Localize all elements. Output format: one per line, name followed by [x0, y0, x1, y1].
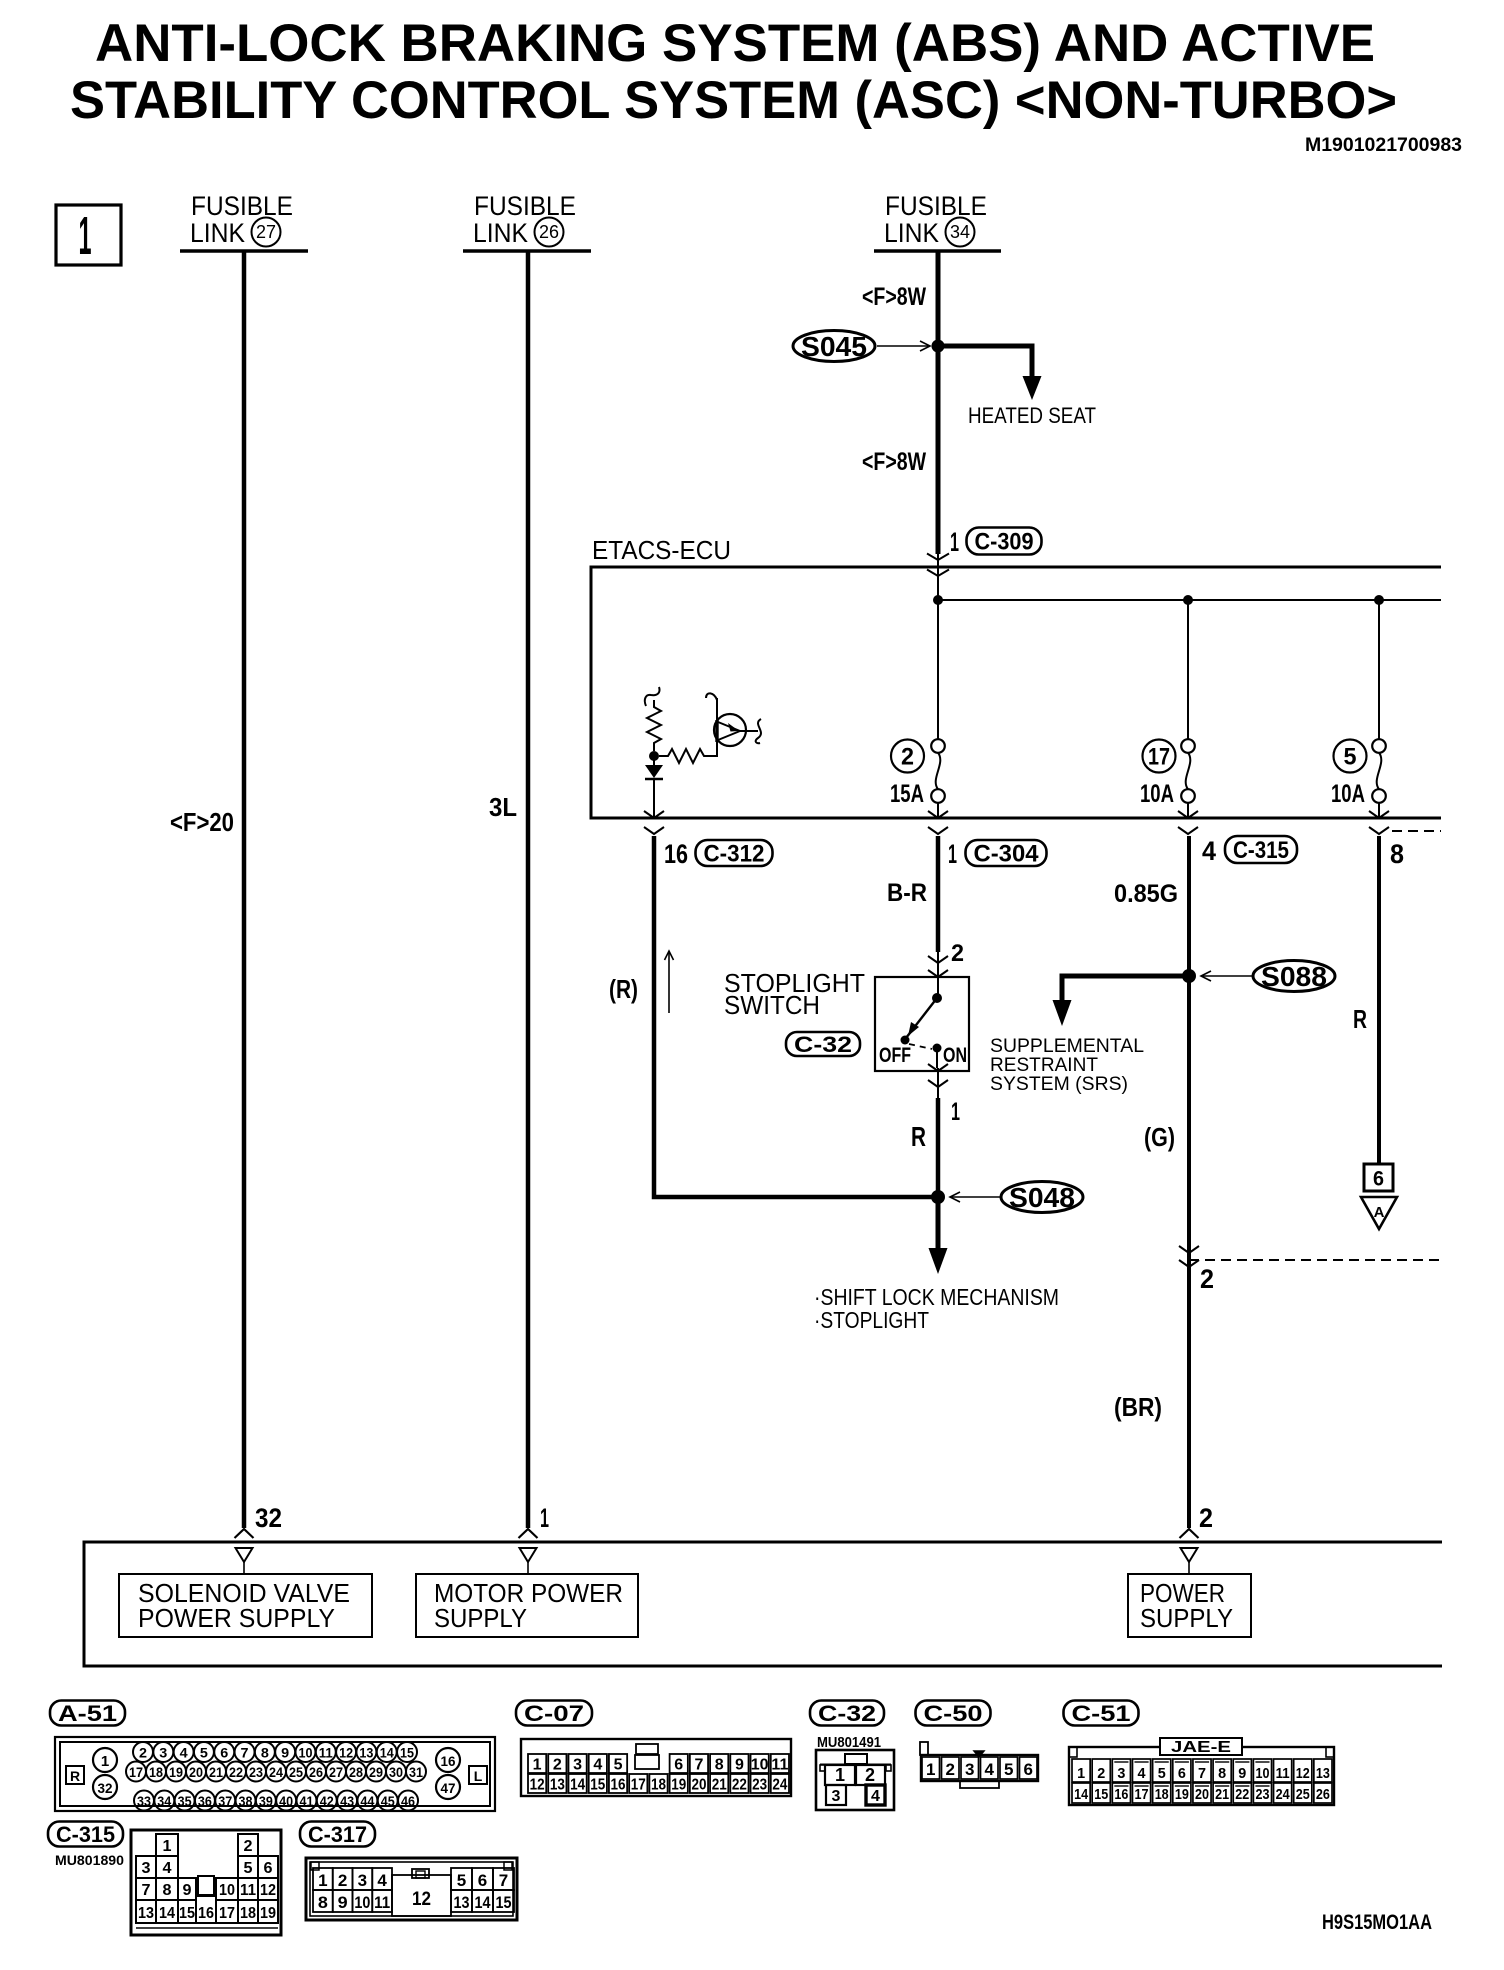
- svg-text:13: 13: [1316, 1765, 1330, 1782]
- crossing chevrons out of stoplight switch: [937, 1068, 939, 1098]
- svg-text:C-312: C-312: [704, 841, 765, 868]
- ABS hydraulic unit box (continues off sheet): [84, 1542, 1442, 1666]
- svg-text:17: 17: [1135, 1786, 1149, 1803]
- svg-text:7: 7: [241, 1746, 249, 1761]
- fusible link 27 bar: [180, 249, 308, 253]
- svg-text:6: 6: [1373, 1168, 1384, 1191]
- connector C-32 body: [816, 1750, 894, 1810]
- terminal triangle at pin 2: [1181, 1548, 1198, 1562]
- svg-text:10: 10: [354, 1893, 370, 1912]
- svg-text:1: 1: [1077, 1765, 1085, 1782]
- svg-text:9: 9: [338, 1893, 348, 1912]
- svg-text:33: 33: [137, 1794, 151, 1809]
- svg-text:44: 44: [360, 1794, 374, 1809]
- svg-text:1: 1: [163, 1838, 172, 1855]
- svg-text:19: 19: [1175, 1786, 1189, 1803]
- svg-text:3: 3: [965, 1760, 974, 1779]
- svg-text:2: 2: [1200, 1264, 1214, 1294]
- svg-text:7: 7: [695, 1757, 704, 1774]
- arrow from S048 to junction: [950, 1196, 1001, 1198]
- svg-text:5: 5: [457, 1871, 466, 1890]
- svg-text:(G): (G): [1144, 1122, 1175, 1152]
- svg-text:5: 5: [614, 1757, 623, 1774]
- bus junction dot D: [1374, 595, 1384, 605]
- svg-text:4: 4: [377, 1871, 387, 1890]
- connector A-51 pins 33-46: [134, 1791, 154, 1811]
- svg-text:2: 2: [139, 1746, 147, 1761]
- svg-text:28: 28: [349, 1765, 363, 1780]
- connector C-315 name label: [48, 1822, 123, 1847]
- svg-text:LINK: LINK: [190, 218, 245, 248]
- svg-text:6: 6: [264, 1860, 273, 1877]
- svg-text:3L: 3L: [489, 792, 517, 822]
- svg-text:6: 6: [220, 1746, 229, 1761]
- svg-text:4: 4: [1138, 1765, 1147, 1782]
- svg-text:H9S15MO1AA: H9S15MO1AA: [1322, 1911, 1432, 1934]
- svg-text:1: 1: [951, 1098, 960, 1126]
- svg-text:14: 14: [1074, 1786, 1089, 1803]
- svg-text:3: 3: [832, 1788, 841, 1805]
- power supply box: [1128, 1574, 1251, 1637]
- connector A-51 L index: [469, 1766, 487, 1784]
- svg-text:16: 16: [1114, 1786, 1128, 1803]
- svg-text:1: 1: [948, 839, 957, 869]
- connector C-317 name label: [300, 1822, 375, 1847]
- connector C-07 pins row 1: [528, 1754, 546, 1773]
- svg-text:2: 2: [338, 1871, 347, 1890]
- svg-text:6: 6: [1178, 1765, 1186, 1782]
- svg-text:ON: ON: [943, 1044, 967, 1067]
- svg-text:7: 7: [1198, 1765, 1206, 1782]
- svg-text:21: 21: [209, 1765, 223, 1780]
- svg-text:10A: 10A: [1331, 780, 1365, 808]
- arrow from S088 to junction: [1201, 975, 1253, 977]
- svg-text:3: 3: [142, 1860, 151, 1877]
- svg-text:(R): (R): [609, 974, 638, 1004]
- svg-text:1: 1: [533, 1757, 542, 1774]
- svg-text:41: 41: [299, 1794, 313, 1809]
- wire (R) return branch: [654, 836, 938, 1197]
- svg-text:L: L: [474, 1768, 483, 1784]
- motor power supply box: [416, 1574, 638, 1637]
- svg-text:MU801890: MU801890: [55, 1852, 124, 1868]
- svg-text:A-51: A-51: [58, 1701, 117, 1726]
- svg-text:SWITCH: SWITCH: [724, 990, 820, 1020]
- terminal triangle at pin 32: [236, 1548, 253, 1562]
- svg-text:10: 10: [751, 1757, 769, 1774]
- svg-text:4: 4: [163, 1860, 172, 1877]
- svg-text:C-304: C-304: [974, 841, 1040, 868]
- crossing chevrons at pin 4 (C-315): [1187, 803, 1189, 818]
- svg-text:8: 8: [261, 1746, 270, 1761]
- svg-text:10A: 10A: [1140, 780, 1174, 808]
- page reference triangle A: [1361, 1197, 1397, 1229]
- svg-text:25: 25: [289, 1765, 303, 1780]
- svg-text:11: 11: [771, 1757, 788, 1774]
- svg-text:16: 16: [664, 839, 688, 869]
- connector C-315 pins 7-12: [136, 1878, 156, 1900]
- connector C-317 pins 8-11: [313, 1890, 333, 1912]
- svg-text:5: 5: [200, 1746, 209, 1761]
- svg-text:10: 10: [219, 1882, 235, 1899]
- splice S045: [793, 331, 875, 362]
- svg-text:26: 26: [1316, 1786, 1330, 1803]
- svg-text:S048: S048: [1009, 1182, 1075, 1213]
- fuse 17 10A: [1187, 600, 1189, 740]
- svg-text:JAE-E: JAE-E: [1171, 1739, 1231, 1756]
- svg-text:25: 25: [1296, 1786, 1310, 1803]
- svg-text:<F>20: <F>20: [170, 807, 234, 837]
- wire 0.85G from C-315: [1187, 836, 1191, 1528]
- svg-text:24: 24: [269, 1765, 283, 1780]
- connector A-51 pins 2-15: [133, 1742, 153, 1762]
- svg-text:17: 17: [631, 1777, 646, 1794]
- svg-text:4: 4: [593, 1757, 602, 1774]
- bus junction dot C: [1183, 595, 1193, 605]
- svg-text:2: 2: [244, 1838, 253, 1855]
- connector A-51 pin 1: [93, 1748, 117, 1772]
- svg-text:2: 2: [553, 1757, 562, 1774]
- svg-text:20: 20: [1195, 1786, 1209, 1803]
- svg-text:R: R: [911, 1121, 926, 1152]
- junction dot S088: [1182, 969, 1196, 983]
- svg-text:20: 20: [691, 1777, 706, 1794]
- svg-text:17: 17: [129, 1765, 143, 1780]
- svg-text:19: 19: [671, 1777, 686, 1794]
- svg-text:16: 16: [611, 1777, 626, 1794]
- svg-text:7: 7: [499, 1871, 508, 1890]
- svg-text:9: 9: [735, 1757, 744, 1774]
- svg-text:18: 18: [149, 1765, 163, 1780]
- svg-text:MU801491: MU801491: [817, 1734, 881, 1751]
- svg-text:47: 47: [441, 1780, 456, 1796]
- svg-text:21: 21: [712, 1777, 727, 1794]
- svg-text:3: 3: [358, 1871, 367, 1890]
- svg-text:23: 23: [1255, 1786, 1269, 1803]
- svg-text:7: 7: [142, 1882, 151, 1899]
- connector C-50 body: [921, 1755, 1038, 1781]
- svg-text:19: 19: [260, 1905, 276, 1922]
- connector C-317 pin 12: [392, 1875, 451, 1916]
- connector C-315 pins 13-19: [136, 1900, 156, 1923]
- junction dot S045: [932, 340, 945, 353]
- connector C-07 body: [521, 1739, 791, 1796]
- svg-text:LINK: LINK: [884, 218, 939, 248]
- wire 3L from fusible link 26 to pin 1: [526, 251, 531, 1528]
- svg-text:5: 5: [1004, 1760, 1013, 1779]
- svg-text:6: 6: [478, 1871, 487, 1890]
- splice S048: [1001, 1182, 1083, 1213]
- svg-text:C-32: C-32: [818, 1701, 876, 1726]
- svg-text:13: 13: [550, 1777, 565, 1794]
- splice S088: [1253, 961, 1335, 992]
- fuse 5 10A: [1378, 600, 1380, 740]
- svg-text:FUSIBLE: FUSIBLE: [885, 191, 987, 221]
- connector C-50 pins 1-6: [922, 1757, 940, 1779]
- wire B-R from C-304 to stoplight switch: [936, 836, 941, 952]
- connector C-32 pin 3: [826, 1785, 846, 1805]
- connector A-51 body: [55, 1737, 495, 1811]
- svg-text:38: 38: [239, 1794, 253, 1809]
- svg-text:3: 3: [159, 1746, 168, 1761]
- svg-text:16: 16: [441, 1753, 456, 1769]
- svg-text:2: 2: [1199, 1503, 1213, 1533]
- connector C-51 pins row 2: [1072, 1783, 1090, 1803]
- svg-text:13: 13: [454, 1893, 470, 1912]
- svg-text:POWER SUPPLY: POWER SUPPLY: [138, 1603, 335, 1633]
- connector C-07 name label: [516, 1701, 592, 1726]
- svg-text:2: 2: [945, 1760, 954, 1779]
- connector C-315 pin 2: [238, 1834, 258, 1856]
- svg-text:10: 10: [298, 1746, 312, 1761]
- svg-text:0.85G: 0.85G: [1114, 880, 1178, 908]
- svg-text:5: 5: [1158, 1765, 1166, 1782]
- svg-text:34: 34: [950, 222, 970, 242]
- svg-text:1: 1: [101, 1753, 109, 1770]
- svg-text:3: 3: [573, 1757, 582, 1774]
- svg-text:32: 32: [255, 1503, 282, 1533]
- branch wire to SRS: [1062, 976, 1189, 1004]
- svg-text:C-32: C-32: [794, 1032, 852, 1057]
- svg-text:13: 13: [359, 1746, 373, 1761]
- svg-text:STABILITY CONTROL SYSTEM (ASC): STABILITY CONTROL SYSTEM (ASC) <NON-TURB…: [70, 71, 1397, 130]
- svg-text:8: 8: [1390, 839, 1404, 869]
- svg-text:SUPPLY: SUPPLY: [1140, 1603, 1233, 1633]
- svg-text:M1901021700983: M1901021700983: [1305, 135, 1462, 156]
- connector C-317 pins 13-15: [451, 1890, 472, 1912]
- svg-text:34: 34: [157, 1794, 171, 1809]
- connector A-51 pin 16: [436, 1748, 460, 1772]
- svg-text:8: 8: [1218, 1765, 1226, 1782]
- svg-text:32: 32: [98, 1780, 113, 1796]
- svg-text:19: 19: [169, 1765, 183, 1780]
- svg-text:C-51: C-51: [1072, 1701, 1131, 1726]
- junction node at diode anode: [649, 751, 659, 761]
- svg-text:29: 29: [369, 1765, 383, 1780]
- svg-text:6: 6: [674, 1757, 683, 1774]
- svg-text:27: 27: [329, 1765, 343, 1780]
- junction dot S048: [931, 1190, 945, 1204]
- svg-text:4: 4: [180, 1746, 189, 1761]
- svg-text:15: 15: [1094, 1786, 1108, 1803]
- svg-text:R: R: [70, 1768, 80, 1784]
- svg-text:ANTI-LOCK BRAKING SYSTEM (ABS): ANTI-LOCK BRAKING SYSTEM (ABS) AND ACTIV…: [95, 14, 1375, 73]
- svg-text:C-309: C-309: [975, 529, 1034, 556]
- svg-text:22: 22: [1235, 1786, 1249, 1803]
- svg-text:15: 15: [590, 1777, 605, 1794]
- svg-text:C-315: C-315: [56, 1822, 115, 1847]
- svg-text:39: 39: [259, 1794, 273, 1809]
- connector C-315 body: [131, 1830, 281, 1935]
- svg-text:26: 26: [309, 1765, 323, 1780]
- connector C-07 pins row 2: [528, 1774, 546, 1793]
- svg-text:LINK: LINK: [473, 218, 528, 248]
- svg-text:31: 31: [409, 1765, 423, 1780]
- svg-text:45: 45: [381, 1794, 395, 1809]
- svg-text:12: 12: [412, 1889, 431, 1910]
- svg-text:3: 3: [1117, 1765, 1125, 1782]
- connector C-32 name label: [810, 1701, 884, 1726]
- connector A-51 pin 47: [436, 1775, 460, 1799]
- connector C-317 pins 5-7: [451, 1868, 472, 1890]
- connector C-315 pins 3-6: [136, 1856, 156, 1878]
- svg-text:6: 6: [1023, 1760, 1032, 1779]
- svg-text:14: 14: [475, 1893, 491, 1912]
- connector C-51 pins row 1: [1072, 1759, 1090, 1782]
- svg-text:<F>8W: <F>8W: [862, 283, 926, 311]
- svg-text:11: 11: [374, 1893, 390, 1912]
- svg-text:14: 14: [159, 1905, 175, 1922]
- flow direction arrow up: [668, 951, 670, 1013]
- crossing chevrons at pin 8: [1378, 803, 1380, 818]
- svg-text:15: 15: [400, 1746, 414, 1761]
- crossing chevrons at pin 16 (C-312): [644, 811, 664, 818]
- svg-text:ETACS-ECU: ETACS-ECU: [592, 535, 731, 565]
- svg-text:B-R: B-R: [887, 879, 927, 907]
- svg-text:HEATED SEAT: HEATED SEAT: [968, 403, 1096, 428]
- svg-text:12: 12: [260, 1882, 276, 1899]
- svg-text:18: 18: [651, 1777, 666, 1794]
- svg-text:36: 36: [198, 1794, 212, 1809]
- crossing chevrons into stoplight switch: [937, 952, 939, 998]
- svg-text:1: 1: [318, 1871, 327, 1890]
- terminal triangle at pin 1: [520, 1548, 537, 1562]
- svg-text:15: 15: [179, 1905, 195, 1922]
- svg-text:42: 42: [320, 1794, 334, 1809]
- svg-text:1: 1: [540, 1503, 549, 1533]
- sheet number box 1: [56, 205, 121, 265]
- svg-text:SYSTEM (SRS): SYSTEM (SRS): [990, 1073, 1128, 1095]
- squiggle continuation above resistor R1: [645, 687, 660, 706]
- connector C-51 body: [1069, 1747, 1334, 1805]
- svg-text:OFF: OFF: [879, 1044, 911, 1067]
- svg-text:35: 35: [178, 1794, 192, 1809]
- svg-text:FUSIBLE: FUSIBLE: [474, 191, 576, 221]
- stoplight switch C-32: [875, 977, 969, 1071]
- ETACS-ECU box: [591, 567, 1441, 818]
- dashed continuation line at pin 8: [1392, 830, 1441, 832]
- svg-text:9: 9: [1238, 1765, 1246, 1782]
- arrow to shift lock mechanism / stoplight: [936, 1197, 941, 1252]
- connector C-50 name label: [916, 1701, 991, 1726]
- svg-text:17: 17: [219, 1905, 235, 1922]
- svg-text:2: 2: [951, 940, 964, 967]
- fuse 2 15A: [937, 600, 939, 740]
- connector C-32 pin 4: [866, 1785, 885, 1805]
- svg-text:S088: S088: [1261, 961, 1327, 992]
- wire end terminal at pin 1: [519, 1529, 538, 1538]
- svg-text:9: 9: [183, 1882, 192, 1899]
- svg-text:18: 18: [240, 1905, 256, 1922]
- connector C-32 pin 2: [856, 1765, 885, 1785]
- svg-text:30: 30: [389, 1765, 403, 1780]
- svg-text:C-07: C-07: [524, 1701, 584, 1726]
- svg-text:11: 11: [1276, 1765, 1290, 1782]
- svg-text:FUSIBLE: FUSIBLE: [191, 191, 293, 221]
- crossing chevrons at pin 1 (C-304): [937, 803, 939, 818]
- svg-text:1: 1: [950, 527, 959, 557]
- connector C-315 pin 1: [156, 1834, 178, 1856]
- svg-text:C-317: C-317: [308, 1822, 367, 1847]
- svg-text:2: 2: [901, 744, 914, 771]
- wire <F>8W from fusible link 34: [936, 251, 941, 554]
- svg-text:15A: 15A: [890, 780, 924, 808]
- svg-text:S045: S045: [801, 331, 867, 362]
- resistor R1 (vertical): [647, 700, 661, 751]
- svg-text:(BR): (BR): [1114, 1392, 1162, 1422]
- connector A-51 pin 32: [93, 1775, 117, 1799]
- svg-text:14: 14: [570, 1777, 585, 1794]
- svg-text:8: 8: [318, 1893, 328, 1912]
- transistor Q1: [714, 714, 746, 746]
- svg-text:4: 4: [984, 1760, 994, 1779]
- svg-text:9: 9: [281, 1746, 289, 1761]
- connector C-317 pins 1-4: [313, 1868, 333, 1890]
- svg-text:16: 16: [198, 1905, 214, 1922]
- svg-text:22: 22: [229, 1765, 243, 1780]
- svg-text:C-315: C-315: [1233, 837, 1289, 864]
- svg-text:4: 4: [871, 1788, 880, 1805]
- connector C-32 pin 1: [825, 1765, 855, 1785]
- svg-text:1: 1: [79, 206, 92, 266]
- connector C-317 body: [306, 1858, 517, 1920]
- svg-text:12: 12: [339, 1746, 353, 1761]
- svg-text:18: 18: [1155, 1786, 1169, 1803]
- svg-text:11: 11: [240, 1882, 256, 1899]
- svg-text:20: 20: [189, 1765, 203, 1780]
- svg-text:A: A: [1374, 1204, 1385, 1221]
- svg-text:·STOPLIGHT: ·STOPLIGHT: [814, 1307, 929, 1333]
- crossing chevrons at dashed line: [1179, 1246, 1199, 1253]
- solenoid valve power supply box: [119, 1574, 372, 1637]
- svg-text:R: R: [1353, 1004, 1367, 1034]
- svg-text:C-50: C-50: [924, 1701, 983, 1726]
- fusible link 34 bar: [874, 249, 1001, 253]
- svg-text:43: 43: [340, 1794, 354, 1809]
- resistor R2 (horizontal, to transistor base): [659, 742, 717, 763]
- connector C-51 name label: [1064, 1701, 1139, 1726]
- wire R to intermediate connector 6: [1377, 836, 1381, 1164]
- svg-text:37: 37: [218, 1794, 232, 1809]
- svg-text:8: 8: [715, 1757, 724, 1774]
- svg-text:11: 11: [319, 1746, 333, 1761]
- svg-text:1: 1: [835, 1765, 845, 1785]
- svg-text:12: 12: [1296, 1765, 1310, 1782]
- svg-text:13: 13: [138, 1905, 154, 1922]
- svg-text:17: 17: [1148, 744, 1170, 771]
- svg-text:40: 40: [279, 1794, 293, 1809]
- svg-text:5: 5: [1344, 744, 1357, 771]
- svg-text:23: 23: [752, 1777, 767, 1794]
- svg-text:1: 1: [926, 1760, 935, 1779]
- dashed continuation line (sheet boundary): [1189, 1259, 1441, 1261]
- svg-text:2: 2: [865, 1765, 875, 1785]
- svg-text:12: 12: [530, 1777, 545, 1794]
- wire R below stoplight switch: [936, 1098, 941, 1197]
- wire from diode to pin 16: [653, 779, 655, 818]
- svg-text:<F>8W: <F>8W: [862, 448, 926, 476]
- svg-text:10: 10: [1255, 1765, 1269, 1782]
- svg-text:24: 24: [1276, 1786, 1291, 1803]
- svg-text:24: 24: [772, 1777, 787, 1794]
- svg-text:26: 26: [539, 222, 559, 242]
- svg-text:46: 46: [401, 1794, 415, 1809]
- connector A-51 R index: [66, 1766, 84, 1784]
- wire end terminal at pin 32: [235, 1529, 254, 1538]
- internal bus wire: [938, 599, 1441, 601]
- svg-text:5: 5: [244, 1860, 253, 1877]
- intermediate connector box 6: [1364, 1164, 1393, 1191]
